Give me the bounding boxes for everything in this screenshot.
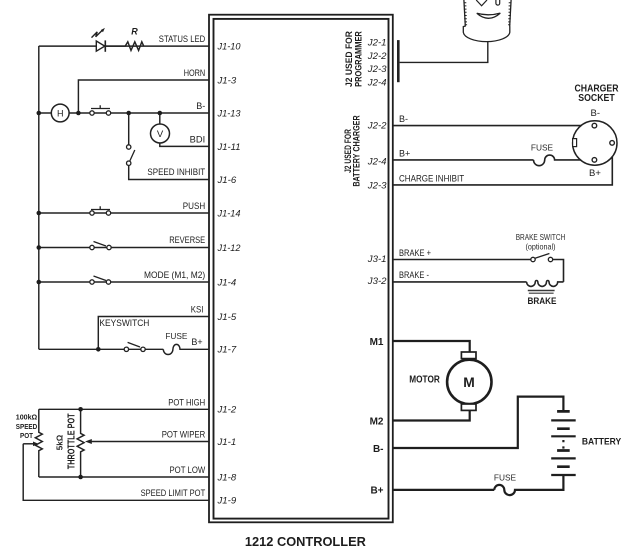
svg-text:FUSE: FUSE bbox=[165, 331, 188, 341]
svg-text:(optional): (optional) bbox=[526, 241, 556, 251]
svg-text:FUSE: FUSE bbox=[494, 472, 517, 482]
svg-text:J2-2: J2-2 bbox=[367, 120, 387, 131]
svg-text:HORN: HORN bbox=[184, 68, 206, 78]
svg-text:BRAKE -: BRAKE - bbox=[399, 270, 429, 280]
svg-text:B-: B- bbox=[399, 114, 408, 124]
svg-text:M: M bbox=[463, 375, 475, 390]
svg-text:CHARGE INHIBIT: CHARGE INHIBIT bbox=[399, 173, 465, 183]
svg-text:H: H bbox=[57, 108, 64, 118]
svg-text:M2: M2 bbox=[370, 416, 384, 427]
svg-text:J1-3: J1-3 bbox=[216, 75, 236, 86]
svg-text:J1-14: J1-14 bbox=[217, 208, 241, 219]
svg-text:J1-8: J1-8 bbox=[216, 472, 236, 483]
svg-text:KEYSWITCH: KEYSWITCH bbox=[99, 318, 149, 328]
svg-text:MODE (M1, M2): MODE (M1, M2) bbox=[144, 270, 205, 280]
svg-text:J2-3: J2-3 bbox=[367, 64, 387, 75]
svg-text:POT HIGH: POT HIGH bbox=[168, 397, 205, 407]
svg-text:BDI: BDI bbox=[190, 135, 206, 145]
svg-text:J2-4: J2-4 bbox=[367, 156, 387, 167]
svg-text:PROGRAMMER: PROGRAMMER bbox=[354, 31, 365, 87]
svg-text:J1-7: J1-7 bbox=[216, 345, 236, 356]
svg-text:STATUS LED: STATUS LED bbox=[159, 34, 206, 44]
svg-text:SPEED LIMIT POT: SPEED LIMIT POT bbox=[141, 488, 206, 498]
svg-text:POT WIPER: POT WIPER bbox=[162, 430, 206, 440]
svg-text:BRAKE +: BRAKE + bbox=[399, 248, 431, 258]
svg-text:J2-2: J2-2 bbox=[367, 51, 387, 62]
svg-text:J1-4: J1-4 bbox=[216, 277, 236, 288]
svg-text:B+: B+ bbox=[191, 337, 202, 347]
svg-text:1212 CONTROLLER: 1212 CONTROLLER bbox=[245, 535, 366, 547]
svg-text:POT: POT bbox=[20, 431, 33, 440]
svg-text:SPEED INHIBIT: SPEED INHIBIT bbox=[147, 167, 205, 177]
svg-text:J1-6: J1-6 bbox=[216, 175, 236, 186]
svg-text:J2-1: J2-1 bbox=[367, 38, 387, 49]
svg-text:POT LOW: POT LOW bbox=[170, 465, 206, 475]
svg-text:J2-3: J2-3 bbox=[367, 181, 387, 192]
svg-text:FUSE: FUSE bbox=[531, 143, 554, 153]
svg-text:J1-10: J1-10 bbox=[217, 41, 242, 52]
svg-text:B-: B- bbox=[373, 444, 384, 455]
svg-text:B+: B+ bbox=[399, 148, 410, 158]
svg-text:5kΩ: 5kΩ bbox=[56, 434, 65, 450]
svg-text:PUSH: PUSH bbox=[183, 201, 205, 211]
svg-text:SPEED: SPEED bbox=[16, 422, 38, 431]
svg-text:J2-4: J2-4 bbox=[367, 78, 387, 89]
svg-text:REVERSE: REVERSE bbox=[169, 235, 205, 245]
svg-text:J1-9: J1-9 bbox=[216, 496, 236, 507]
svg-text:B+: B+ bbox=[370, 485, 383, 496]
svg-text:J1-12: J1-12 bbox=[217, 243, 242, 254]
svg-text:BATTERY CHARGER: BATTERY CHARGER bbox=[352, 115, 363, 186]
svg-text:J1-2: J1-2 bbox=[216, 405, 236, 416]
svg-text:J1-11: J1-11 bbox=[217, 142, 241, 153]
svg-text:M1: M1 bbox=[370, 337, 384, 348]
svg-text:J1-13: J1-13 bbox=[217, 108, 242, 119]
svg-text:MOTOR: MOTOR bbox=[409, 373, 440, 385]
svg-text:R: R bbox=[131, 27, 138, 37]
svg-text:BATTERY: BATTERY bbox=[582, 437, 621, 447]
svg-text:J1-5: J1-5 bbox=[216, 312, 236, 323]
svg-text:B+: B+ bbox=[589, 168, 601, 179]
svg-text:BRAKE: BRAKE bbox=[528, 296, 557, 306]
svg-text:SOCKET: SOCKET bbox=[578, 93, 615, 104]
svg-text:100kΩ: 100kΩ bbox=[16, 413, 38, 422]
svg-text:V: V bbox=[157, 129, 164, 140]
svg-text:J1-1: J1-1 bbox=[216, 437, 236, 448]
svg-text:B-: B- bbox=[196, 101, 205, 111]
svg-text:KSI: KSI bbox=[191, 305, 204, 315]
svg-text:B-: B- bbox=[591, 108, 601, 119]
svg-text:THROTTLE POT: THROTTLE POT bbox=[65, 413, 77, 469]
svg-text:J3-1: J3-1 bbox=[367, 254, 387, 265]
svg-text:J3-2: J3-2 bbox=[367, 276, 387, 287]
